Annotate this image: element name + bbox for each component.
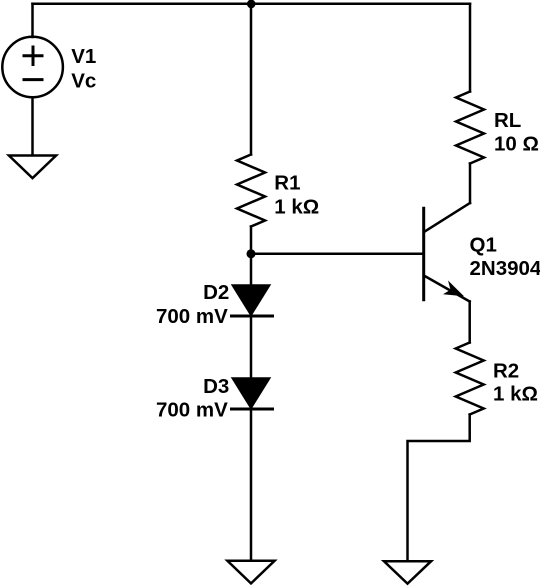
transistor Q1 xyxy=(424,203,470,302)
diode D3 xyxy=(232,379,273,410)
wire R2 to ground (down, left, down) xyxy=(408,415,470,561)
wire V1 bottom lead xyxy=(31,98,34,155)
svg-text:V1: V1 xyxy=(71,45,96,68)
resistor R2 xyxy=(456,343,484,415)
svg-text:2N3904: 2N3904 xyxy=(470,257,540,280)
wire Q1 emitter to R2 xyxy=(468,302,471,343)
ground (left, below V1) xyxy=(9,156,56,179)
svg-text:RL: RL xyxy=(494,109,521,132)
node base junction xyxy=(247,249,256,258)
svg-text:700 mV: 700 mV xyxy=(156,305,228,328)
svg-text:Q1: Q1 xyxy=(470,233,497,256)
wire base node to D2 xyxy=(250,254,253,286)
svg-text:Vc: Vc xyxy=(71,69,96,92)
ground (middle, below D3) xyxy=(227,561,274,584)
svg-text:D3: D3 xyxy=(203,375,229,398)
wire middle branch (top rail to R1) xyxy=(250,4,253,155)
ground (right, below R2) xyxy=(384,561,431,583)
diode D2 xyxy=(232,286,273,317)
svg-text:R1: R1 xyxy=(274,172,300,195)
svg-text:10 Ω: 10 Ω xyxy=(494,133,539,156)
svg-text:700 mV: 700 mV xyxy=(156,398,228,421)
wire V1 top lead xyxy=(31,4,34,37)
wire RL top lead xyxy=(469,4,472,92)
svg-text:R2: R2 xyxy=(493,359,519,382)
resistor R1 xyxy=(237,155,265,227)
wire D3 to ground xyxy=(250,409,253,560)
voltage source V1 xyxy=(2,37,63,98)
wire base node to Q1 base xyxy=(251,253,424,256)
svg-text:1 kΩ: 1 kΩ xyxy=(274,196,319,219)
wire top rail xyxy=(33,2,471,5)
wire R1 to base node xyxy=(250,227,253,254)
node top junction xyxy=(247,0,256,8)
svg-text:D2: D2 xyxy=(203,281,229,304)
wire RL to Q1 collector xyxy=(469,164,472,204)
svg-text:1 kΩ: 1 kΩ xyxy=(493,383,538,406)
wire D2 to D3 xyxy=(250,316,253,379)
resistor RL xyxy=(456,92,484,164)
